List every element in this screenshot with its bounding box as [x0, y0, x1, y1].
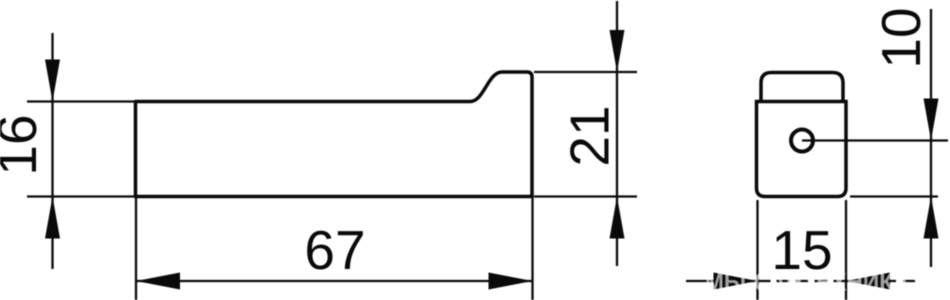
dim 16 extension lines — [27, 100, 135, 102]
dim 15 extension lines — [756, 200, 758, 300]
front view body — [757, 102, 847, 197]
svg-text:10: 10 — [870, 7, 932, 68]
dim 10 extension line — [850, 195, 938, 197]
dim 15 line segments — [686, 280, 758, 282]
dim 16 line — [51, 33, 53, 269]
svg-text:21: 21 — [559, 105, 621, 166]
dim 21 extension lines — [534, 71, 637, 73]
dim 16 arrows — [45, 60, 60, 102]
dim 67 line — [136, 280, 533, 282]
hole — [791, 130, 813, 152]
dim 21 line — [616, 1, 618, 266]
dim 67 arrows — [136, 273, 180, 290]
hole center line — [802, 139, 948, 141]
dim 15 arrows — [714, 273, 758, 290]
dim 67 extension lines — [135, 197, 137, 300]
front view tab — [761, 73, 843, 102]
side view outline of hook part — [136, 72, 533, 197]
dim 10 line — [930, 9, 932, 267]
svg-text:МЫ-САНТЕХНИКА.РФ: МЫ-САНТЕХНИКА.РФ — [705, 269, 950, 297]
dim 10 arrows — [924, 99, 939, 141]
svg-text:67: 67 — [304, 219, 365, 281]
svg-text:16: 16 — [0, 114, 48, 175]
dim 21 arrows — [610, 30, 625, 72]
